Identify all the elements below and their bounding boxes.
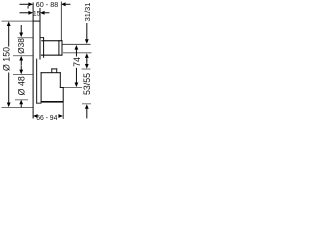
lower knob step front x63 — [63, 87, 64, 102]
dimension arrow right of 15 pointing left at x40 — [40, 11, 49, 15]
dimension arrow left of 15 pointing right at x33 — [20, 11, 34, 15]
lower knob step y87.3 — [60, 86, 64, 89]
right ext line y68.5 — [82, 68, 91, 71]
lower escutcheon left x36.3 — [35, 59, 38, 104]
svg-text:Ø 150: Ø 150 — [1, 47, 11, 71]
right ext line y103.8 — [82, 102, 91, 105]
upper knob box top y40.7 — [41, 40, 62, 41]
svg-text:15: 15 — [33, 10, 41, 17]
ext line y99.8 for Ø48 bottom — [15, 98, 28, 101]
Ø48 outside up arrow — [19, 100, 23, 108]
right ext line y41 — [62, 43, 90, 46]
right ext line y87.4 — [63, 86, 82, 89]
svg-text:66 - 94: 66 - 94 — [36, 113, 57, 122]
plate top cap y21 — [33, 21, 41, 22]
lower knob back x41 — [41, 72, 42, 102]
upper knob rim x58.5 — [58, 40, 59, 55]
ext line y37.6 for Ø38 top — [18, 36, 33, 39]
plate front upper x40 (ext above) — [40, 8, 41, 60]
lower knob bottom y101.8 — [41, 101, 64, 103]
svg-text:60 - 88: 60 - 88 — [36, 2, 59, 9]
wall / plate back line x33 — [33, 3, 34, 119]
lower knob front x60.3 — [60, 72, 61, 88]
svg-text:Ø38: Ø38 — [16, 38, 26, 54]
dimension arrow left of 60-88 pointing right at wall line x33 — [20, 2, 34, 8]
Ø38 outside up arrow — [19, 56, 23, 65]
upper knob front cap x61.3 — [62, 40, 63, 55]
dim line Ø150 upper segment with up arrow — [7, 21, 11, 46]
bottom dimension 66 - 94 left arrow — [33, 114, 38, 118]
dimension 74 up arrow at y41 line — [75, 45, 79, 57]
svg-text:74: 74 — [72, 57, 82, 67]
svg-text:31/31: 31/31 — [83, 3, 92, 22]
Ø48 outside down arrow — [19, 66, 23, 75]
left ext line y107.4 (plate bottom) — [2, 106, 34, 109]
31/31 down arrow to ext line y41 — [85, 23, 89, 44]
ext line y55.6 for Ø38 bottom — [13, 54, 33, 57]
lower escutcheon bottom y103.3 — [36, 102, 41, 105]
upper knob neck top y37.5 — [40, 36, 44, 39]
button bump on lower knob — [51, 68, 57, 69]
dimension arrow right of 60-88 pointing left at ext line x61 — [61, 2, 70, 6]
extension line x61 from 60-88 dim down — [60, 2, 63, 42]
upper knob box bottom y55.2 — [41, 55, 63, 56]
svg-text:Ø 48: Ø 48 — [16, 76, 26, 95]
dim line Ø150 lower segment with down arrow — [7, 73, 11, 108]
dimension 74 down arrow at y87.4 line — [75, 68, 79, 87]
53/55 outside down arrow at ext line y68.5 — [85, 60, 89, 69]
svg-text:53/55: 53/55 — [82, 73, 92, 95]
bottom dimension 66 - 94 right arrow — [58, 114, 63, 118]
Ø38 outside down arrow — [19, 25, 23, 37]
bottom dim ext line x63 — [62, 102, 65, 119]
lower knob top y72.6 — [41, 72, 61, 73]
right ext line y52.8 — [63, 51, 92, 54]
ext line y74.5 for Ø48 top — [13, 73, 33, 76]
left ext line y21 (plate top) — [2, 20, 34, 23]
31/31 outside up arrow at ext line y52.8 — [85, 53, 89, 61]
53/55 outside up arrow at ext line y103.8 — [85, 104, 89, 118]
upper knob neck right x43.5 — [43, 37, 44, 58]
